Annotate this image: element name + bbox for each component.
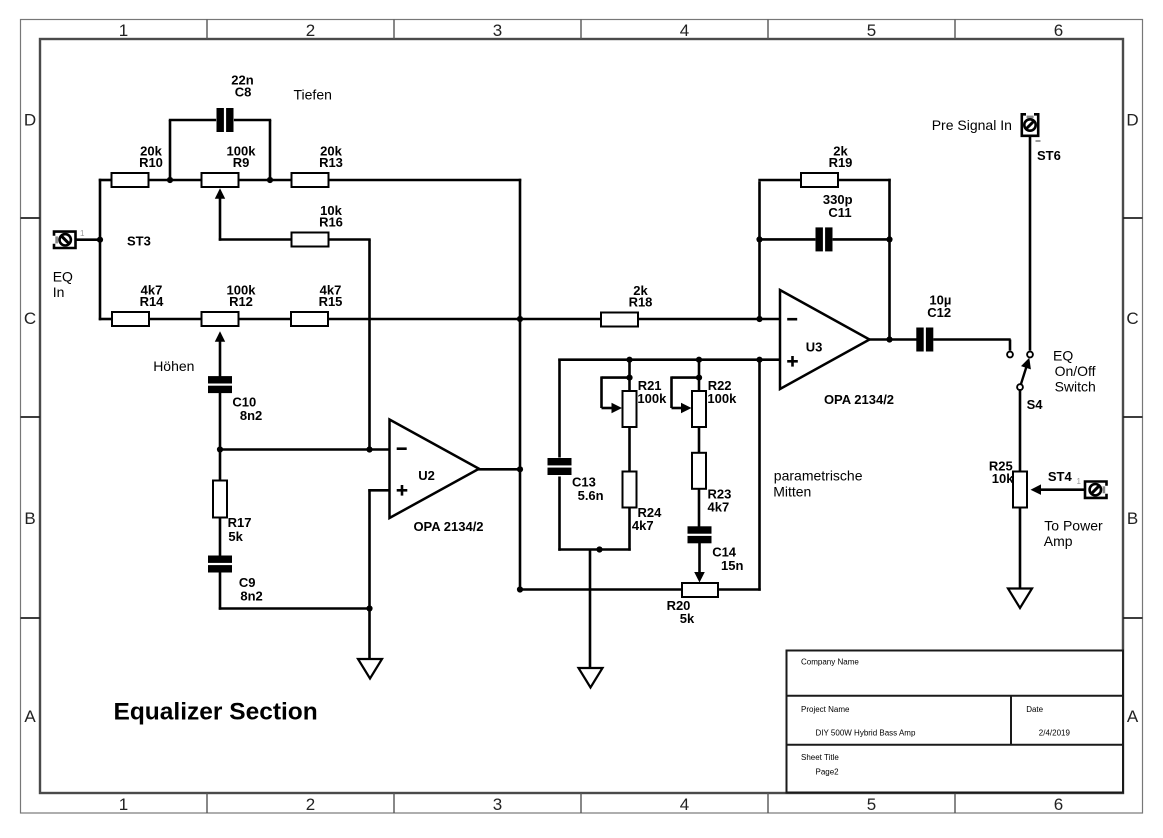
- resistor R16: [292, 203, 343, 247]
- wire switch to R25: [1019, 390, 1022, 473]
- svg-text:ST4: ST4: [1048, 469, 1073, 484]
- svg-text:C12: C12: [927, 305, 951, 320]
- potentiometer R9: [202, 144, 257, 188]
- capacitor C14: [688, 526, 712, 543]
- svg-text:R9: R9: [233, 155, 250, 170]
- arrowhead R20 wiper: [694, 572, 705, 583]
- svg-text:5: 5: [867, 795, 876, 814]
- resistor R14: [112, 283, 164, 327]
- potentiometer R20: [667, 583, 718, 626]
- wire ST4 to R25 wiper: [1040, 488, 1085, 491]
- svg-text:C8: C8: [235, 85, 252, 100]
- junction U2 noninv / ground: [366, 605, 372, 611]
- wire R12 to R15: [239, 318, 292, 321]
- svg-text:4: 4: [680, 21, 689, 40]
- arrowhead R12 wiper: [215, 331, 225, 342]
- connector ST4: [1085, 482, 1107, 498]
- wire R22 wiper loop bottom: [672, 407, 682, 410]
- svg-text:1: 1: [119, 795, 128, 814]
- connector ST3: [54, 232, 76, 248]
- wire band line to R22: [698, 359, 701, 393]
- wire R9 to R13: [239, 179, 292, 182]
- wire feedback right vertical: [888, 179, 891, 341]
- wire R17 to C9: [219, 517, 222, 556]
- svg-text:Tiefen: Tiefen: [294, 87, 332, 103]
- wire R9 wiper down: [219, 198, 222, 241]
- wire R15 to R18: [328, 318, 601, 321]
- svg-text:Pre Signal In: Pre Signal In: [932, 117, 1012, 133]
- wire R19 right: [838, 179, 891, 182]
- svg-text:R13: R13: [319, 155, 343, 170]
- wire ground stem parametric: [589, 550, 592, 669]
- wire ST3 to input node: [76, 238, 100, 241]
- svg-text:5k: 5k: [228, 529, 243, 544]
- svg-text:R16: R16: [319, 215, 343, 230]
- svg-text:D: D: [1126, 111, 1138, 130]
- wire vertical bus x=520: [519, 179, 522, 591]
- svg-text:C11: C11: [828, 205, 851, 220]
- wire R19 left: [758, 179, 801, 182]
- potentiometer R21: [623, 391, 637, 427]
- capacitor C10: [208, 376, 232, 393]
- switch S4 throw contact (C12 side): [1007, 352, 1013, 358]
- svg-text:2: 2: [306, 795, 315, 814]
- svg-text:Project Name: Project Name: [801, 705, 850, 714]
- capacitor C13: [548, 458, 572, 475]
- wire U2 output to bus: [478, 468, 521, 471]
- svg-text:4k7: 4k7: [708, 499, 730, 514]
- wire R9 wiper to R16: [219, 238, 291, 241]
- wire C14 to R20 wiper: [698, 542, 701, 573]
- wire U2 inverting input line: [220, 448, 391, 451]
- junction C11 left: [756, 236, 762, 242]
- svg-text:5.6n: 5.6n: [578, 488, 604, 503]
- junction R10/R9/C8: [167, 177, 173, 183]
- op-amp U3: [780, 290, 894, 407]
- resistor R15: [291, 283, 342, 327]
- svg-text:DIY 500W Hybrid Bass Amp: DIY 500W Hybrid Bass Amp: [816, 729, 916, 738]
- wire R21 wiper loop top: [602, 376, 630, 379]
- wire C10 to R17: [219, 393, 222, 482]
- wire feedback left vertical: [758, 181, 761, 319]
- resistor R18: [601, 283, 652, 327]
- svg-text:6: 6: [1054, 795, 1063, 814]
- svg-text:Sheet Title: Sheet Title: [801, 753, 839, 762]
- resistor R17: [213, 481, 227, 518]
- wire U2 noninv input vertical to ground: [368, 489, 371, 660]
- ground at U2 noninverting input: [358, 659, 382, 679]
- svg-text:A: A: [24, 707, 36, 726]
- svg-text:R10: R10: [139, 155, 163, 170]
- wire C8 loop right vertical: [269, 120, 272, 180]
- arrowhead R9 wiper: [215, 188, 225, 199]
- svg-text:R15: R15: [319, 294, 343, 309]
- wire R22 wiper loop top: [672, 376, 700, 379]
- svg-text:R12: R12: [229, 294, 253, 309]
- svg-text:R17: R17: [228, 515, 252, 530]
- potentiometer R12: [202, 283, 257, 327]
- wire R16 to inv node: [328, 238, 371, 241]
- wire R24 to bottom line: [628, 507, 631, 551]
- svg-text:Switch: Switch: [1055, 379, 1096, 395]
- junction bus / R20 line: [517, 586, 523, 592]
- svg-text:1: 1: [80, 229, 85, 238]
- wire R23 to C14: [698, 488, 701, 528]
- wire C8 loop top left: [169, 119, 216, 122]
- junction R22 wiper tie: [696, 375, 702, 381]
- svg-text:R18: R18: [629, 295, 653, 310]
- svg-text:S4: S4: [1027, 397, 1044, 412]
- ground at R25: [1008, 589, 1032, 609]
- pin 1 label ST6: [1036, 140, 1041, 142]
- ground at parametric section: [579, 668, 603, 688]
- svg-text:OPA 2134/2: OPA 2134/2: [413, 519, 483, 534]
- svg-text:C: C: [1126, 309, 1138, 328]
- svg-text:Equalizer Section: Equalizer Section: [114, 698, 318, 725]
- svg-text:10k: 10k: [992, 471, 1014, 486]
- wire C12 to switch throw: [933, 338, 1011, 341]
- junction R9/R13/C8: [267, 177, 273, 183]
- svg-text:U2: U2: [418, 468, 435, 483]
- svg-text:On/Off: On/Off: [1055, 363, 1096, 379]
- svg-text:U3: U3: [806, 340, 823, 355]
- frame row tick y=417: [21, 416, 41, 418]
- svg-text:100k: 100k: [707, 391, 737, 406]
- switch S4 common contact: [1017, 384, 1023, 390]
- svg-text:In: In: [53, 284, 65, 300]
- junction U3 output / feedback: [886, 336, 892, 342]
- frame column tick x=955: [954, 20, 956, 40]
- svg-text:5k: 5k: [680, 611, 695, 626]
- svg-text:4: 4: [680, 795, 689, 814]
- title block: [787, 651, 1124, 793]
- junction R21 wiper tie: [626, 375, 632, 381]
- junction band line / R21: [626, 357, 632, 363]
- wire input node to R10: [99, 179, 112, 182]
- wire R14 to R12: [149, 318, 202, 321]
- junction U3 inv input / feedback: [756, 316, 762, 322]
- svg-text:Amp: Amp: [1044, 533, 1073, 549]
- svg-text:ST6: ST6: [1037, 148, 1061, 163]
- wire C8 loop top right: [234, 119, 271, 122]
- wire switch throw stub: [1009, 340, 1012, 351]
- resistor R23: [692, 453, 706, 489]
- wire C11 left lead: [760, 238, 816, 241]
- junction C10-R17 / U2 inv line: [217, 446, 223, 452]
- capacitor C9: [208, 556, 232, 573]
- svg-text:EQ: EQ: [53, 268, 73, 284]
- svg-text:2: 2: [306, 21, 315, 40]
- svg-text:ST3: ST3: [127, 234, 151, 249]
- wire band line to R21: [628, 359, 631, 393]
- capacitor C12: [916, 328, 933, 352]
- connector ST6: [1022, 114, 1038, 136]
- wire C13 down: [558, 477, 561, 551]
- junction input node at ST3: [97, 237, 103, 243]
- junction bus / C row line: [517, 316, 523, 322]
- frame column tick x=768: [767, 20, 769, 40]
- potentiometer R25: [1013, 472, 1027, 508]
- arrowhead switch S4 blade: [1021, 358, 1031, 370]
- capacitor C8: [217, 108, 234, 132]
- svg-text:R14: R14: [140, 294, 165, 309]
- wire input node to R14: [99, 318, 112, 321]
- svg-text:3: 3: [493, 21, 502, 40]
- resistor R10: [112, 144, 163, 188]
- junction C11 right: [886, 236, 892, 242]
- svg-text:4k7: 4k7: [632, 518, 654, 533]
- junction C13 bottom / ground stem: [596, 546, 602, 552]
- junction band line / R22: [696, 357, 702, 363]
- wire C13 bottom to R24: [558, 548, 630, 551]
- wire R21 wiper loop left: [600, 376, 603, 408]
- wire input node vertical: [99, 179, 102, 320]
- frame row tick y=218: [21, 217, 41, 219]
- svg-text:Page2: Page2: [816, 768, 840, 777]
- frame row tick y=618: [21, 617, 41, 619]
- wire R18 to U3 inverting input: [638, 318, 780, 321]
- wire C8 loop left vertical: [169, 120, 172, 180]
- wire R21 to R24: [628, 427, 631, 473]
- svg-text:C: C: [24, 309, 36, 328]
- svg-text:B: B: [1127, 509, 1138, 528]
- wire R13 to bus corner: [329, 179, 522, 182]
- svg-text:6: 6: [1054, 21, 1063, 40]
- svg-text:Mitten: Mitten: [773, 484, 811, 500]
- svg-text:8n2: 8n2: [240, 588, 262, 603]
- svg-text:15n: 15n: [721, 558, 743, 573]
- wire C9 down: [219, 572, 222, 610]
- arrowhead R25 wiper: [1031, 484, 1042, 495]
- junction bus / U2 output: [517, 466, 523, 472]
- wire U3 output to C12: [869, 338, 917, 341]
- capacitor C11: [816, 227, 833, 251]
- svg-text:3: 3: [493, 795, 502, 814]
- wire C9 to U2 noninv ground node: [219, 607, 371, 610]
- svg-text:To Power: To Power: [1044, 518, 1103, 534]
- wire R12 wiper down to C10: [219, 341, 222, 377]
- wire band top line to U3 noninv: [558, 358, 781, 361]
- svg-text:OPA 2134/2: OPA 2134/2: [824, 392, 894, 407]
- junction band line / riser: [756, 357, 762, 363]
- wire R20 to right riser: [718, 588, 761, 591]
- svg-text:8n2: 8n2: [240, 408, 262, 423]
- svg-text:A: A: [1127, 707, 1139, 726]
- svg-text:parametrische: parametrische: [774, 468, 863, 484]
- svg-text:100k: 100k: [637, 391, 667, 406]
- svg-text:D: D: [24, 111, 36, 130]
- wire right riser x=759.5: [758, 359, 761, 591]
- wire band line down to C13: [558, 359, 561, 458]
- switch S4 pole contact (ST6 side): [1027, 352, 1033, 358]
- svg-text:2/4/2019: 2/4/2019: [1039, 729, 1071, 738]
- svg-text:Höhen: Höhen: [153, 358, 194, 374]
- svg-text:5: 5: [867, 21, 876, 40]
- frame column tick x=394: [393, 20, 395, 40]
- wire bus to R20: [519, 588, 682, 591]
- svg-text:B: B: [24, 509, 35, 528]
- svg-text:1: 1: [119, 21, 128, 40]
- wire R22 wiper loop left: [670, 376, 673, 408]
- wire C11 right lead: [833, 238, 890, 241]
- wire R16 down to U2 inverting input: [368, 240, 371, 451]
- resistor R19: [801, 144, 852, 188]
- svg-text:Company Name: Company Name: [801, 658, 859, 667]
- svg-text:R19: R19: [829, 155, 853, 170]
- resistor R24: [623, 472, 637, 508]
- svg-text:Date: Date: [1026, 705, 1043, 714]
- wire ST6 down to switch: [1029, 136, 1032, 351]
- op-amp U2: [390, 420, 484, 535]
- frame column tick x=581: [580, 20, 582, 40]
- wire R22 to R23: [698, 427, 701, 454]
- junction U2 inv input / R16: [366, 446, 372, 452]
- wire R25 to ground: [1019, 507, 1022, 590]
- frame column tick x=207: [206, 20, 208, 40]
- arrowhead R22 wiper: [681, 403, 692, 413]
- wire R21 wiper loop bottom: [602, 407, 613, 410]
- svg-text:1: 1: [1077, 477, 1082, 486]
- wire R10 to R9: [149, 179, 202, 182]
- resistor R13: [292, 144, 343, 188]
- potentiometer R22: [692, 391, 706, 427]
- arrowhead R21 wiper: [612, 403, 623, 413]
- switch S4 blade: [1020, 364, 1027, 387]
- wire U2 noninv input: [368, 489, 391, 492]
- svg-text:EQ: EQ: [1053, 348, 1073, 364]
